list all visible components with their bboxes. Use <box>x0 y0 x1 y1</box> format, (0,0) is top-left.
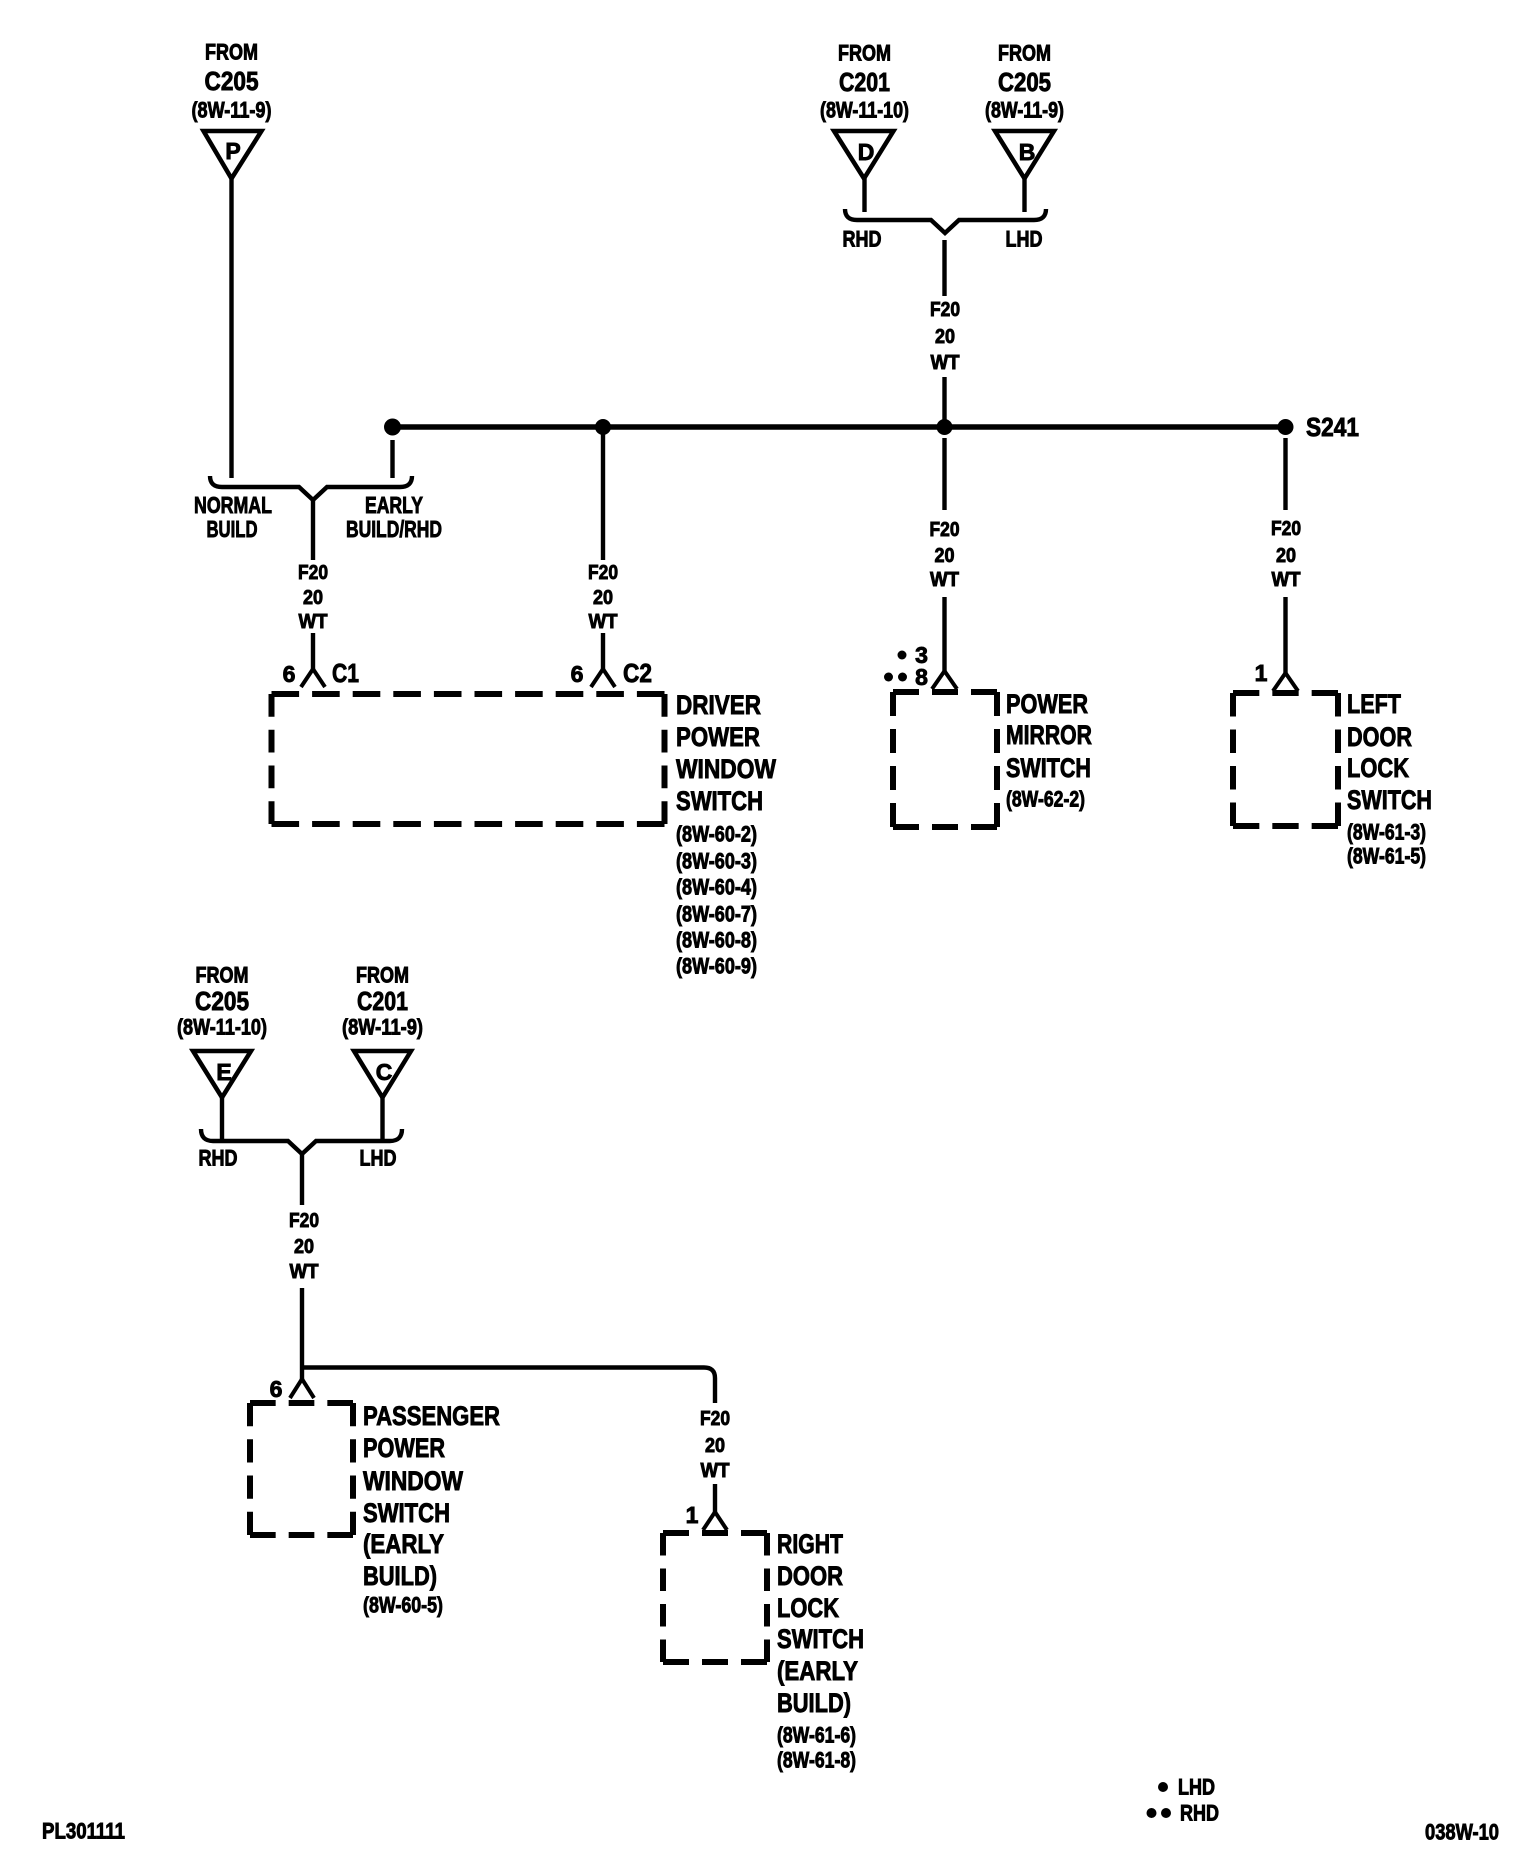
svg-text:WT: WT <box>1272 569 1301 591</box>
svg-text:DOOR: DOOR <box>1347 722 1412 752</box>
svg-text:(8W-61-6): (8W-61-6) <box>777 1723 856 1748</box>
svg-text:WT: WT <box>701 1460 730 1482</box>
svg-text:F20: F20 <box>588 562 618 584</box>
svg-text:C1: C1 <box>332 658 359 688</box>
svg-text:20: 20 <box>294 1236 314 1258</box>
svg-text:(8W-60-8): (8W-60-8) <box>676 928 757 953</box>
svg-text:C205: C205 <box>195 986 249 1016</box>
svg-text:6: 6 <box>571 661 584 687</box>
svg-text:(8W-61-5): (8W-61-5) <box>1347 844 1426 869</box>
svg-text:LHD: LHD <box>1178 1775 1215 1800</box>
svg-text:C205: C205 <box>998 67 1051 97</box>
svg-text:FROM: FROM <box>838 41 891 66</box>
svg-text:SWITCH: SWITCH <box>1006 753 1091 783</box>
svg-text:EARLY: EARLY <box>365 492 423 518</box>
svg-text:20: 20 <box>935 545 955 567</box>
svg-text:DOOR: DOOR <box>777 1561 843 1591</box>
svg-text:(8W-61-8): (8W-61-8) <box>777 1748 856 1773</box>
svg-text:WT: WT <box>290 1261 319 1283</box>
svg-text:20: 20 <box>935 326 955 348</box>
svg-text:BUILD): BUILD) <box>363 1561 437 1591</box>
svg-text:6: 6 <box>270 1376 283 1402</box>
svg-text:(8W-60-5): (8W-60-5) <box>363 1593 443 1618</box>
svg-text:BUILD/RHD: BUILD/RHD <box>346 516 442 542</box>
svg-text:RIGHT: RIGHT <box>777 1529 843 1559</box>
svg-text:POWER: POWER <box>363 1433 445 1463</box>
svg-text:F20: F20 <box>289 1210 319 1232</box>
svg-text:D: D <box>858 139 875 165</box>
svg-text:LOCK: LOCK <box>1347 753 1409 783</box>
svg-text:WINDOW: WINDOW <box>676 754 776 784</box>
svg-text:POWER: POWER <box>676 722 760 752</box>
svg-text:1: 1 <box>1255 660 1268 686</box>
svg-text:SWITCH: SWITCH <box>363 1498 450 1528</box>
svg-text:FROM: FROM <box>998 41 1051 66</box>
svg-text:WT: WT <box>930 569 959 591</box>
svg-text:(8W-60-9): (8W-60-9) <box>676 954 757 979</box>
svg-text:LOCK: LOCK <box>777 1593 839 1623</box>
svg-text:SWITCH: SWITCH <box>1347 785 1432 815</box>
svg-text:S241: S241 <box>1306 412 1359 442</box>
svg-text:20: 20 <box>303 587 323 609</box>
svg-text:C205: C205 <box>205 66 259 96</box>
svg-text:6: 6 <box>283 661 296 687</box>
svg-text:DRIVER: DRIVER <box>676 690 761 720</box>
svg-text:(8W-60-2): (8W-60-2) <box>676 822 757 847</box>
svg-text:RHD: RHD <box>199 1146 238 1171</box>
svg-text:BUILD: BUILD <box>207 516 258 542</box>
svg-text:F20: F20 <box>700 1408 730 1430</box>
svg-text:NORMAL: NORMAL <box>194 492 272 518</box>
svg-text:PASSENGER: PASSENGER <box>363 1401 500 1431</box>
svg-text:(8W-60-4): (8W-60-4) <box>676 875 757 900</box>
svg-text:F20: F20 <box>298 562 328 584</box>
svg-text:(8W-62-2): (8W-62-2) <box>1006 787 1085 812</box>
svg-text:(8W-60-7): (8W-60-7) <box>676 902 757 927</box>
svg-text:C201: C201 <box>357 986 408 1016</box>
svg-text:(8W-11-10): (8W-11-10) <box>820 98 909 123</box>
svg-text:F20: F20 <box>930 519 960 541</box>
svg-text:(8W-11-10): (8W-11-10) <box>177 1015 267 1040</box>
svg-text:RHD: RHD <box>1180 1801 1219 1826</box>
svg-text:(8W-61-3): (8W-61-3) <box>1347 820 1426 845</box>
svg-text:B: B <box>1019 139 1036 165</box>
svg-text:(8W-60-3): (8W-60-3) <box>676 849 757 874</box>
svg-text:20: 20 <box>705 1435 725 1457</box>
svg-text:(EARLY: (EARLY <box>363 1529 444 1559</box>
svg-text:WT: WT <box>299 611 328 633</box>
svg-text:(8W-11-9): (8W-11-9) <box>985 98 1064 123</box>
svg-text:MIRROR: MIRROR <box>1006 720 1092 750</box>
svg-text:PL301111: PL301111 <box>42 1819 125 1844</box>
svg-text:8: 8 <box>915 664 928 690</box>
svg-text:038W-10: 038W-10 <box>1425 1820 1499 1845</box>
svg-text:20: 20 <box>593 587 613 609</box>
svg-text:FROM: FROM <box>196 963 249 988</box>
svg-text:(EARLY: (EARLY <box>777 1656 858 1686</box>
svg-text:LHD: LHD <box>1006 227 1043 252</box>
svg-text:C2: C2 <box>623 658 652 688</box>
svg-text:WT: WT <box>589 611 618 633</box>
svg-text:1: 1 <box>686 1502 699 1528</box>
svg-text:(8W-11-9): (8W-11-9) <box>342 1015 423 1040</box>
svg-text:E: E <box>216 1059 231 1085</box>
svg-text:SWITCH: SWITCH <box>676 786 763 816</box>
svg-text:F20: F20 <box>930 299 960 321</box>
svg-text:(8W-11-9): (8W-11-9) <box>192 98 272 123</box>
svg-text:RHD: RHD <box>843 227 882 252</box>
svg-text:FROM: FROM <box>356 963 409 988</box>
svg-text:FROM: FROM <box>205 40 258 65</box>
svg-text:WINDOW: WINDOW <box>363 1466 463 1496</box>
svg-text:P: P <box>225 138 240 164</box>
svg-text:LEFT: LEFT <box>1347 689 1401 719</box>
svg-text:BUILD): BUILD) <box>777 1688 851 1718</box>
svg-text:SWITCH: SWITCH <box>777 1624 864 1654</box>
svg-text:20: 20 <box>1276 545 1296 567</box>
svg-text:WT: WT <box>931 352 960 374</box>
svg-text:F20: F20 <box>1271 518 1301 540</box>
svg-text:C201: C201 <box>839 67 890 97</box>
svg-text:LHD: LHD <box>360 1146 397 1171</box>
svg-text:C: C <box>376 1059 393 1085</box>
svg-text:POWER: POWER <box>1006 689 1088 719</box>
